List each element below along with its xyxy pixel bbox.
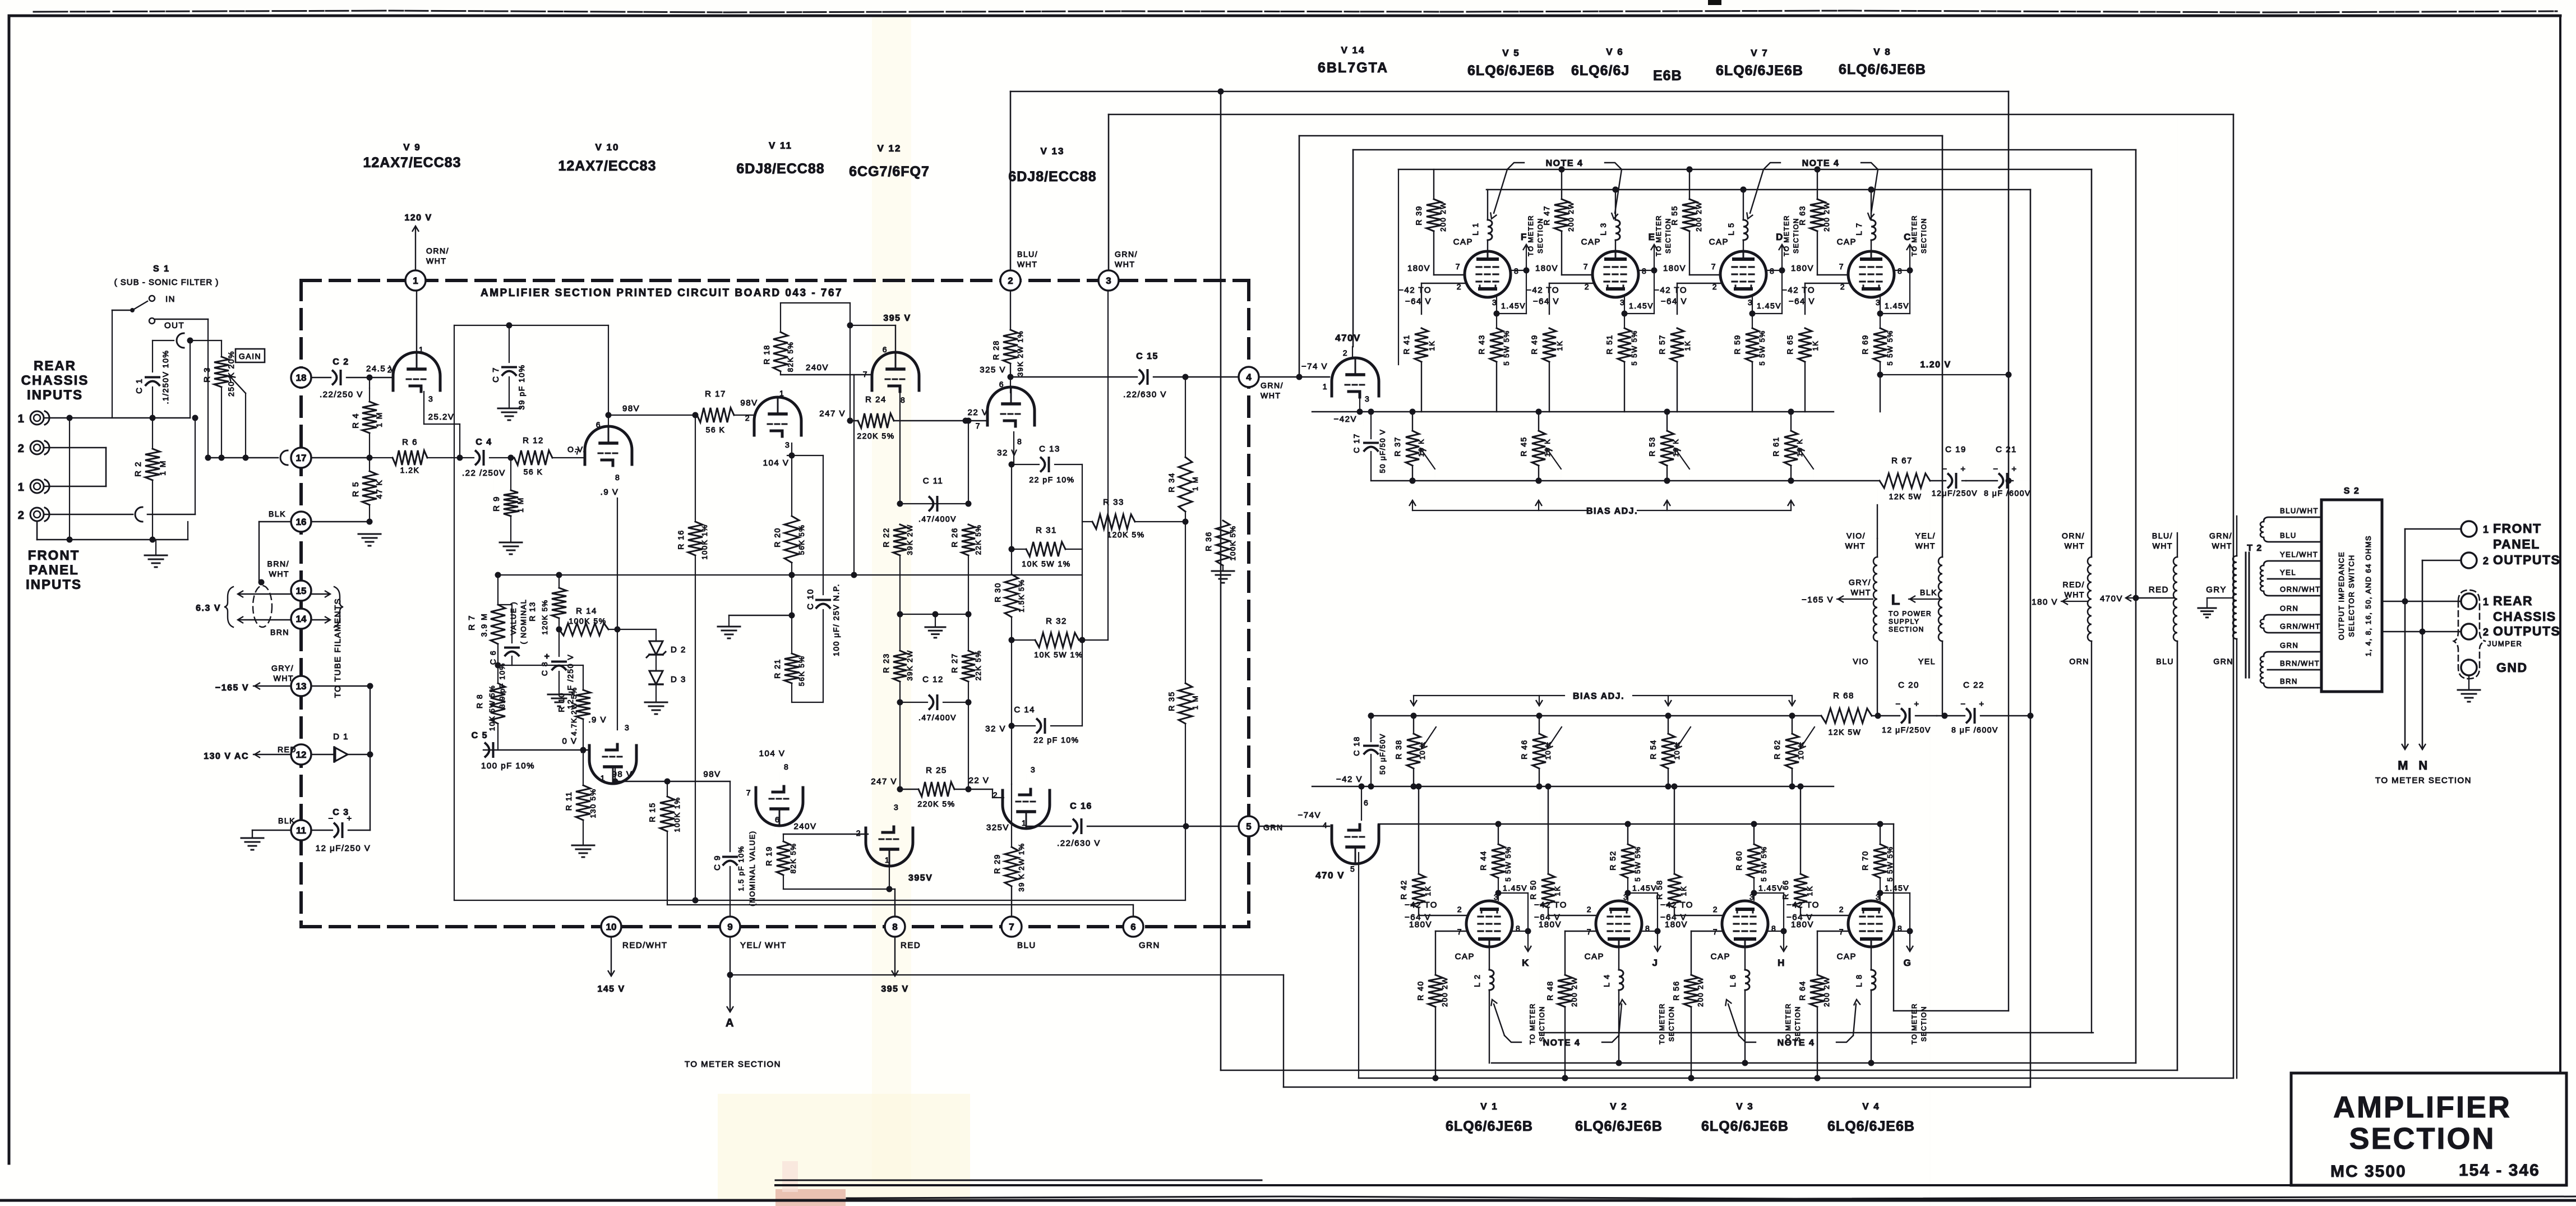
svg-text:R 2: R 2 — [133, 461, 143, 477]
svg-text:R 60: R 60 — [1734, 850, 1743, 871]
svg-text:BLU/WHT: BLU/WHT — [2280, 507, 2319, 515]
resistor R 55 200 2W — [1689, 169, 1690, 199]
switch S1 IN terminal — [149, 296, 155, 301]
wire cathode meter link — [1624, 313, 1654, 314]
svg-text:V 2: V 2 — [1610, 1101, 1628, 1112]
bottom loop line h1938 — [1284, 1087, 2030, 1088]
svg-text:TO METER SECTION: TO METER SECTION — [685, 1060, 781, 1069]
svg-text:7: 7 — [1456, 262, 1461, 271]
svg-text:130 5%: 130 5% — [589, 788, 597, 818]
wire cathode meter link bottom — [1880, 892, 1910, 894]
svg-text:R 44: R 44 — [1479, 850, 1488, 871]
potentiometer R 46 10K bottom — [1539, 716, 1540, 734]
svg-text:2: 2 — [2483, 627, 2490, 638]
svg-text:BLU: BLU — [2156, 657, 2174, 666]
svg-text:180V: 180V — [1791, 920, 1814, 929]
svg-text:1K: 1K — [1553, 886, 1562, 896]
svg-text:1K: 1K — [1428, 340, 1436, 351]
svg-text:C 2: C 2 — [333, 357, 349, 367]
terminal 5 — [1239, 816, 1259, 836]
bias adj arrow at R 62 bottom — [1792, 696, 1793, 703]
wire front2 shield return — [147, 514, 195, 515]
terminal 2 — [1000, 270, 1021, 291]
svg-text:2: 2 — [18, 443, 25, 455]
svg-text:4: 4 — [1323, 821, 1328, 830]
wire V9B plate to 98V node — [608, 415, 609, 429]
wire V12A cathode to R22 column — [899, 392, 901, 504]
svg-text:6: 6 — [775, 815, 780, 824]
wire front panel 1 drop — [2405, 528, 2461, 530]
svg-text:6LQ6/6JE6B: 6LQ6/6JE6B — [1575, 1118, 1663, 1134]
svg-text:PANEL: PANEL — [2493, 537, 2540, 551]
svg-text:−: − — [1993, 464, 1998, 474]
wire loop A left vertical from terminal 2 — [1010, 91, 1012, 270]
svg-text:R 41: R 41 — [1402, 334, 1411, 355]
svg-text:C 20: C 20 — [1898, 680, 1919, 690]
svg-text:REAR: REAR — [34, 358, 76, 374]
svg-text:R 19: R 19 — [764, 846, 773, 866]
svg-text:GRN: GRN — [2280, 641, 2298, 650]
svg-text:BLU/: BLU/ — [2152, 531, 2173, 540]
wire R7-C6 bottom row — [497, 644, 498, 665]
svg-text:R 18: R 18 — [762, 344, 771, 365]
svg-text:CAP: CAP — [1453, 237, 1473, 247]
svg-text:R 36: R 36 — [1204, 531, 1213, 551]
terminal 13 — [291, 676, 311, 696]
svg-text:D 3: D 3 — [671, 675, 686, 684]
resistor R15 — [667, 781, 668, 797]
svg-text:1, 4, 8, 16, 50, AND 64 OHMS: 1, 4, 8, 16, 50, AND 64 OHMS — [2364, 535, 2372, 656]
svg-text:R 58: R 58 — [1655, 880, 1664, 900]
terminal 9 wire down to A — [730, 937, 731, 1010]
svg-text:SECTION: SECTION — [1668, 1006, 1675, 1042]
svg-text:12μF/250V: 12μF/250V — [1932, 489, 1978, 498]
triode V9A — [393, 352, 440, 390]
svg-text:JUMPER: JUMPER — [2487, 639, 2522, 648]
svg-text:5 5W 5%: 5 5W 5% — [1886, 846, 1894, 881]
svg-text:WHT: WHT — [1845, 541, 1866, 550]
svg-text:56K 5%: 56K 5% — [797, 656, 806, 687]
wire 180V screen row bottom — [1565, 931, 1596, 932]
svg-text:200 2W: 200 2W — [1441, 977, 1449, 1007]
svg-text:ORN/: ORN/ — [2062, 531, 2085, 540]
svg-text:56K 5%: 56K 5% — [797, 524, 806, 555]
svg-text:NOTE 4: NOTE 4 — [1778, 1038, 1815, 1048]
svg-text:R 22: R 22 — [881, 527, 890, 547]
pot R 61 wiper arrow — [1800, 450, 1813, 469]
wire 22V node to R26 column — [968, 421, 969, 504]
paper aging streaks — [872, 17, 911, 1184]
row 247V bottom R25 — [900, 789, 918, 790]
svg-text:3: 3 — [1876, 892, 1881, 901]
svg-text:D 2: D 2 — [671, 645, 686, 655]
svg-text:L 1: L 1 — [1471, 222, 1480, 235]
svg-text:−: − — [1942, 464, 1947, 474]
svg-text:GND: GND — [2496, 660, 2528, 675]
svg-text:R 65: R 65 — [1785, 334, 1794, 355]
wire R23 column down — [899, 702, 901, 789]
svg-text:TO METER: TO METER — [1910, 215, 1918, 256]
svg-text:BRN: BRN — [2280, 677, 2298, 685]
resistor R7 — [497, 575, 498, 605]
PCB long loop bottom wire 1 — [454, 900, 1185, 901]
svg-text:6DJ8/ECC88: 6DJ8/ECC88 — [1008, 169, 1096, 185]
input jack rear 2 — [30, 441, 44, 454]
svg-text:3.9 M: 3.9 M — [479, 613, 488, 637]
output tube at x2653 — [1465, 251, 1511, 297]
svg-text:1K: 1K — [1806, 886, 1814, 896]
wire bias rail to loop F vertical — [2030, 715, 2032, 716]
svg-text:R 21: R 21 — [773, 659, 782, 679]
svg-text:2: 2 — [387, 365, 393, 374]
wire cathode meter link — [1880, 313, 1910, 314]
resistor R23 — [893, 651, 907, 682]
wire 98V from V9A region down — [493, 458, 494, 498]
svg-text:BLU: BLU — [2280, 531, 2297, 540]
svg-text:98V: 98V — [622, 404, 640, 413]
node 17 wire into PCB — [312, 457, 370, 458]
svg-text:2: 2 — [1457, 905, 1462, 914]
wire 98V R17 row — [608, 415, 697, 416]
output tube bottom at x3112 — [1722, 901, 1768, 947]
terminal 14 — [291, 609, 311, 629]
resistor R11 — [583, 750, 584, 785]
svg-text:SECTION: SECTION — [1889, 625, 1924, 633]
svg-text:100K 1%: 100K 1% — [673, 797, 681, 832]
T2 secondary lead BLU — [2264, 537, 2321, 542]
svg-text:8: 8 — [1017, 437, 1022, 446]
svg-text:MC 3500: MC 3500 — [2330, 1162, 2407, 1181]
pot R 62 wiper arrow bottom — [1801, 727, 1815, 747]
wire cathode meter link bottom — [1754, 892, 1784, 894]
wire 180V screen row bottom — [1435, 931, 1466, 932]
diode D2 zener — [655, 629, 657, 641]
svg-text:100K 1%: 100K 1% — [700, 524, 709, 559]
svg-text:16: 16 — [296, 517, 307, 527]
svg-text:130 V AC: 130 V AC — [204, 752, 249, 761]
svg-text:154 - 346: 154 - 346 — [2459, 1161, 2540, 1180]
tap GRY to ground — [2207, 597, 2233, 599]
svg-text:NOTE 4: NOTE 4 — [1543, 1038, 1581, 1048]
svg-text:R 43: R 43 — [1477, 334, 1486, 355]
meter arrow G bottom — [1909, 936, 1910, 949]
PCB dashed outline top — [301, 279, 1249, 282]
resistor R28 — [1010, 291, 1011, 330]
top bias rail y857 — [1371, 480, 1880, 481]
svg-text:100 pF 10%: 100 pF 10% — [481, 761, 535, 771]
triode V10B — [589, 745, 636, 784]
wire S2 out to rear 1 — [2382, 601, 2461, 602]
svg-text:SECTION: SECTION — [1794, 1006, 1802, 1042]
row 325V C15 terminal 4 — [1010, 376, 1137, 378]
wire loop C horizontal — [1299, 135, 1942, 137]
row -42V bottom rail — [1312, 786, 1834, 787]
svg-text:200 2W: 200 2W — [1570, 977, 1578, 1007]
svg-text:1: 1 — [18, 413, 25, 425]
svg-text:−165 V: −165 V — [215, 683, 249, 693]
svg-text:−64 V: −64 V — [1533, 297, 1559, 306]
svg-text:ORN/WHT: ORN/WHT — [2280, 585, 2321, 593]
svg-text:R 57: R 57 — [1658, 334, 1666, 355]
wire R27 column down — [968, 702, 969, 789]
svg-text:YEL/ WHT: YEL/ WHT — [740, 941, 787, 950]
wire grid row bottom — [1548, 915, 1596, 916]
svg-text:3: 3 — [1623, 892, 1628, 901]
svg-text:C 21: C 21 — [1996, 445, 2017, 454]
svg-text:180V: 180V — [1539, 920, 1562, 929]
terminal 7 — [1001, 917, 1022, 937]
input jack front 2 — [30, 508, 44, 521]
svg-text:12 μF/250V: 12 μF/250V — [1882, 725, 1931, 734]
svg-text:6LQ6/6JE6B: 6LQ6/6JE6B — [1716, 63, 1803, 79]
svg-text:6: 6 — [596, 420, 601, 429]
svg-text:YEL/: YEL/ — [1915, 531, 1936, 540]
svg-text:V 10: V 10 — [595, 142, 620, 153]
bottom plate bus row — [1492, 1062, 2136, 1064]
capacitor C17 body — [1370, 412, 1372, 439]
resistor R 51 5 5W 5% — [1624, 297, 1625, 314]
svg-text:R 48: R 48 — [1545, 981, 1554, 1001]
svg-text:180V: 180V — [1665, 920, 1688, 929]
svg-text:5 5W 5%: 5 5W 5% — [1630, 330, 1638, 365]
svg-text:R 16: R 16 — [676, 530, 685, 550]
svg-text:CAP: CAP — [1455, 952, 1475, 961]
svg-text:3: 3 — [1365, 394, 1370, 403]
bias adj label row bottom — [1414, 695, 1564, 696]
bias adj arrow at R 45 — [1538, 503, 1539, 510]
svg-text:L 7: L 7 — [1854, 222, 1863, 235]
svg-text:2: 2 — [745, 413, 750, 422]
wire V10B cathode to 98V node — [615, 767, 616, 781]
svg-text:E6B: E6B — [1653, 68, 1682, 84]
svg-text:2: 2 — [18, 509, 25, 522]
wire grid row — [1421, 283, 1465, 284]
svg-text:3: 3 — [1749, 892, 1755, 901]
wire terminal 6 up — [1133, 905, 1134, 917]
plate bus dots bottom — [1616, 1060, 1622, 1066]
svg-text:YEL/WHT: YEL/WHT — [2280, 550, 2318, 559]
potentiometer R 37 10K — [1412, 412, 1413, 431]
resistor R 44 5 5W 5% — [1498, 822, 1499, 844]
cathode bus drop right — [1893, 824, 1894, 1011]
svg-text:WHT: WHT — [274, 674, 294, 683]
svg-text:BLU: BLU — [1017, 941, 1036, 950]
svg-text:CAP: CAP — [1837, 237, 1857, 247]
svg-text:1.45V: 1.45V — [1885, 301, 1909, 310]
svg-text:−64 V: −64 V — [1405, 297, 1432, 306]
svg-text:AMPLIFIER: AMPLIFIER — [2333, 1090, 2512, 1124]
svg-text:C 16: C 16 — [1070, 802, 1092, 811]
capacitor C22 — [1942, 713, 1948, 719]
svg-text:C 5: C 5 — [472, 731, 488, 740]
wire term5 right to V14B — [1259, 826, 1329, 827]
wire front panel 2 drop — [2422, 560, 2461, 561]
svg-text:−: − — [1960, 699, 1966, 709]
T2 secondary coil BLU/WHT group — [2260, 522, 2264, 537]
wire grid row — [1677, 283, 1720, 284]
ground input bus — [145, 555, 167, 556]
wire BLU/WHT top to loop — [2177, 114, 2178, 533]
svg-text:R 37: R 37 — [1393, 436, 1402, 457]
svg-text:R 5: R 5 — [351, 481, 361, 497]
resistor R16 — [695, 415, 696, 522]
wire 5W resistor to tube top — [1749, 900, 1754, 901]
svg-text:.22/630 V: .22/630 V — [1057, 839, 1101, 848]
wire 180V screen row — [1562, 274, 1592, 275]
terminal 11 ground — [252, 830, 291, 831]
wire front jack 1 row — [45, 486, 106, 487]
ground under R36 — [1222, 565, 1224, 570]
svg-text:BRN: BRN — [270, 628, 289, 637]
wire 5W resistor to tube top — [1876, 900, 1880, 901]
svg-text:L: L — [1891, 591, 1901, 608]
meter arrow C — [1909, 247, 1910, 266]
svg-text:R 63: R 63 — [1798, 205, 1807, 225]
svg-text:WHT: WHT — [269, 569, 289, 578]
svg-text:TO METER SECTION: TO METER SECTION — [2375, 776, 2472, 785]
wire rear jack 1 row — [45, 417, 190, 419]
svg-text:C 6: C 6 — [488, 650, 497, 665]
wire cathode meter link — [1752, 313, 1782, 314]
PCB long loop bottom wire 2 — [667, 904, 1133, 905]
bias adj arrow at R 38 bottom — [1413, 696, 1414, 703]
wire V14A plate up to D loop — [1352, 347, 1353, 358]
terminal 13 -165V feed — [253, 685, 291, 687]
svg-text:TO POWER: TO POWER — [1889, 610, 1932, 618]
svg-text:R 47: R 47 — [1542, 205, 1551, 225]
svg-text:R 10: R 10 — [557, 692, 566, 712]
terminal 1 120V feed — [415, 227, 416, 270]
svg-text:( SUB - SONIC FILTER ): ( SUB - SONIC FILTER ) — [114, 278, 219, 287]
wire M vertical — [2404, 601, 2406, 747]
svg-text:247 V: 247 V — [871, 777, 897, 786]
svg-text:5: 5 — [1350, 864, 1355, 873]
svg-text:GRN/: GRN/ — [1261, 381, 1284, 390]
wire big loop right vertical — [2177, 641, 2178, 1070]
wire grid row bottom — [1419, 915, 1466, 916]
capacitor C1 — [152, 340, 153, 372]
svg-text:RED: RED — [2149, 585, 2169, 595]
svg-text:22 pF 10%: 22 pF 10% — [1033, 735, 1079, 744]
potentiometer R 61 10K — [1790, 412, 1792, 431]
svg-text:−165 V: −165 V — [1802, 595, 1834, 605]
svg-text:−42 TO: −42 TO — [1660, 900, 1693, 910]
wire 13 row — [311, 685, 370, 687]
svg-text:R 15: R 15 — [648, 802, 657, 822]
triode V14A 6BL7 upper — [1332, 358, 1379, 396]
vertical join 13-12-11 rows — [370, 686, 371, 830]
resistor R2 — [145, 449, 160, 480]
svg-text:RED/WHT: RED/WHT — [622, 941, 668, 950]
svg-text:SUPPLY: SUPPLY — [1889, 618, 1919, 625]
wire VIO top stub — [1877, 505, 1878, 538]
wire V11B plate up — [779, 772, 780, 781]
svg-text:WHT: WHT — [2212, 541, 2232, 550]
svg-text:C 11: C 11 — [923, 476, 944, 486]
resistor R25 — [918, 782, 954, 797]
svg-text:L 6: L 6 — [1728, 974, 1737, 987]
svg-text:104 V: 104 V — [759, 749, 786, 758]
svg-text:470V: 470V — [1335, 333, 1361, 343]
loop line h1802 — [1894, 1010, 2009, 1011]
svg-text:R 14: R 14 — [576, 606, 597, 616]
resistor R 40 200 2W bottom — [1435, 931, 1436, 975]
svg-text:1K: 1K — [1679, 886, 1688, 896]
wire 180V screen row — [1689, 274, 1720, 275]
svg-text:A: A — [726, 1017, 735, 1029]
bias adj arrow at R 61 — [1790, 503, 1792, 510]
svg-text:−42 TO: −42 TO — [1398, 286, 1432, 295]
triode V11B — [756, 788, 803, 826]
svg-text:NOTE 4: NOTE 4 — [1546, 159, 1584, 168]
svg-text:OUTPUTS: OUTPUTS — [2493, 553, 2560, 567]
resistor R 48 200 2W bottom — [1564, 931, 1566, 975]
svg-text:SECTION: SECTION — [1920, 1006, 1928, 1042]
wire loop B left vertical from terminal 3 — [1108, 114, 1110, 270]
svg-text:RED: RED — [278, 745, 297, 754]
ground under D3 — [655, 684, 657, 701]
svg-text:BRN/: BRN/ — [267, 559, 289, 568]
svg-text:C 18: C 18 — [1352, 736, 1361, 756]
ground under C7 — [498, 408, 520, 409]
wire loop D right vertical — [2135, 150, 2137, 1063]
output tube bottom at x2656 — [1466, 901, 1512, 947]
svg-text:1 M: 1 M — [1191, 695, 1199, 710]
svg-text:CAP: CAP — [1837, 952, 1857, 961]
wire loop C right vertical upper — [1942, 136, 1943, 557]
svg-text:1: 1 — [779, 389, 784, 398]
svg-text:GRY/: GRY/ — [271, 664, 294, 673]
T2 secondary coil GRN group — [2260, 656, 2264, 683]
svg-text:R 34: R 34 — [1167, 472, 1176, 492]
wire V12A plate 395V node — [895, 325, 896, 355]
svg-text:OUT: OUT — [164, 321, 184, 330]
svg-text:50 μF/50 V: 50 μF/50 V — [1378, 429, 1387, 473]
bias adj arrow at R 46 bottom — [1539, 696, 1540, 703]
svg-text:395 V: 395 V — [881, 984, 908, 994]
svg-text:V 12: V 12 — [878, 143, 902, 154]
resistor R 41 1K — [1421, 314, 1422, 328]
inductor L 8 bottom — [1871, 947, 1872, 970]
svg-text:22 V: 22 V — [968, 408, 989, 417]
screen bus top row — [1398, 169, 2092, 171]
resistor R17 — [697, 408, 734, 422]
PCB dashed outline right — [1247, 280, 1250, 927]
wire R15 bottom to lower loop — [667, 831, 668, 905]
capacitor C20 — [1902, 709, 1906, 722]
svg-text:R 3: R 3 — [202, 367, 212, 383]
resistor R22 — [893, 524, 907, 555]
wire 180V screen row — [1434, 274, 1465, 275]
terminal 1 — [405, 270, 426, 291]
resistor R21 — [791, 615, 792, 653]
svg-text:22 V: 22 V — [969, 776, 990, 785]
svg-text:.1/250V 10%: .1/250V 10% — [161, 350, 170, 404]
svg-text:10K 5W 5%: 10K 5W 5% — [488, 685, 496, 731]
svg-text:REAR: REAR — [2493, 593, 2533, 608]
svg-text:−: − — [1895, 699, 1901, 709]
capacitor C7 — [509, 325, 510, 362]
svg-text:5 5W 5%: 5 5W 5% — [1633, 846, 1642, 881]
row below C12 — [899, 682, 901, 702]
diode D3 — [655, 655, 657, 671]
svg-text:OUTPUTS: OUTPUTS — [2493, 624, 2560, 638]
resistor R19 body — [783, 834, 784, 841]
resistor R 50 1K — [1548, 786, 1549, 874]
svg-text:5 5W 5%: 5 5W 5% — [1504, 846, 1512, 881]
svg-text:180V: 180V — [1791, 264, 1814, 273]
output tube bottom at x2887 — [1596, 901, 1642, 947]
